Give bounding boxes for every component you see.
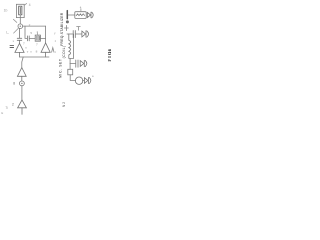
label 16 (left margin text) xyxy=(4,8,8,12)
op-amp D (triangle 90) xyxy=(18,100,27,114)
wire mixer to amp D xyxy=(21,86,23,100)
wire box 98 to mic row xyxy=(69,75,71,81)
wire box to mixer xyxy=(19,18,21,24)
wire junction to capacitor 62 xyxy=(67,33,73,35)
svg-text:7/: 7/ xyxy=(5,106,8,110)
label 24 xyxy=(29,3,31,7)
op-amp C (triangle 82) xyxy=(17,68,26,81)
svg-text:2: 2 xyxy=(29,23,31,27)
wire to filter box 56 xyxy=(68,14,75,16)
label 76 between amps xyxy=(23,42,27,50)
leader tick to crystal xyxy=(36,32,38,35)
wire tank to lower network xyxy=(69,58,71,63)
wire bus down to amp C xyxy=(22,57,23,68)
label 38 xyxy=(30,31,32,35)
net label: vertical text block 3 xyxy=(58,59,62,78)
page mark xyxy=(1,111,3,115)
trimmer mark 64 xyxy=(77,27,81,31)
inductor L1 xyxy=(69,34,71,55)
wire left branch of crystal loop xyxy=(25,26,27,38)
leader tick to box 20 xyxy=(24,3,26,5)
label 70 xyxy=(13,39,15,43)
capacitor 34 xyxy=(27,36,29,41)
antenna lead 50 xyxy=(66,11,68,19)
capacitor 94 xyxy=(76,60,78,67)
leader tick to box 56 xyxy=(80,9,82,12)
wire capacitor to earpiece 66 xyxy=(76,33,82,35)
svg-text:5: 5 xyxy=(30,31,32,35)
svg-text:MIC. SET: MIC. SET xyxy=(58,59,62,78)
svg-text:7: 7 xyxy=(36,42,38,46)
earpiece 96 xyxy=(80,60,87,66)
svg-text:16: 16 xyxy=(107,48,112,53)
svg-text:1b: 1b xyxy=(4,8,8,12)
label 40 below crystal xyxy=(36,42,38,46)
label 30 xyxy=(29,23,31,27)
svg-text:E: E xyxy=(1,111,3,115)
svg-text:FREQ.STABILIZER: FREQ.STABILIZER xyxy=(60,12,64,46)
svg-text:8: 8 xyxy=(36,50,38,54)
filter box 56 xyxy=(75,12,86,19)
crystal 36 xyxy=(35,35,40,41)
leader line to label 72 xyxy=(14,28,19,33)
label 48 caret xyxy=(52,48,54,53)
mixer circle 26 xyxy=(18,24,23,29)
junction node 52 xyxy=(66,20,69,23)
label 80 xyxy=(36,50,38,54)
wire to microphone 100 xyxy=(70,79,75,81)
svg-text:N2: N2 xyxy=(62,102,66,107)
label 72 xyxy=(6,31,9,35)
net label: vertical text block 2 xyxy=(62,46,66,59)
net label: vertical text block 1 xyxy=(60,12,64,46)
label 92 leader xyxy=(5,106,8,110)
microphone 100 xyxy=(75,77,82,84)
wire down to box 98 xyxy=(69,63,71,69)
earpiece 60 xyxy=(87,12,93,18)
capacitor 74 (input of amp A) xyxy=(10,45,14,47)
wire mixer to right corner node xyxy=(23,25,46,27)
svg-text:4: 4 xyxy=(29,3,31,7)
svg-text:(COIL): (COIL) xyxy=(62,46,66,59)
bus wire joining amp outputs xyxy=(20,56,50,58)
box 20 (tuner box, top-left) xyxy=(16,4,24,17)
wire to capacitor 94 xyxy=(70,62,75,64)
parallel wire of tank xyxy=(69,34,74,58)
earpiece 102 xyxy=(84,77,90,83)
leader line to label 22 xyxy=(13,19,16,22)
svg-text:7: 7 xyxy=(27,50,29,54)
box 98 xyxy=(68,69,73,75)
net label: small vertical text bottom xyxy=(62,102,66,107)
svg-text:8: 8 xyxy=(13,82,15,86)
wire crystal to right branch xyxy=(40,37,45,39)
mixer circle 86 xyxy=(20,81,25,86)
label 42 marks xyxy=(54,31,57,54)
op-amp B (triangle 46) xyxy=(41,43,50,57)
coupling capacitor above amp A xyxy=(17,29,22,44)
label a xyxy=(92,74,94,78)
svg-text:L,: L, xyxy=(6,31,9,35)
wire microphone to earpiece 102 xyxy=(82,80,84,82)
op-amp A (triangle 44) xyxy=(15,43,24,57)
label 84 xyxy=(13,82,15,86)
label 58 xyxy=(80,6,82,10)
label 78 xyxy=(27,50,33,54)
trimmer mark 54 xyxy=(64,25,68,30)
capacitor 62 xyxy=(73,31,75,38)
title FIG. 16 xyxy=(107,48,112,61)
wire corner down to amp B xyxy=(45,26,47,43)
earpiece 66 xyxy=(82,31,89,37)
label 88 xyxy=(12,103,14,107)
svg-text:2: 2 xyxy=(12,103,14,107)
wire capacitor to crystal xyxy=(30,37,36,39)
